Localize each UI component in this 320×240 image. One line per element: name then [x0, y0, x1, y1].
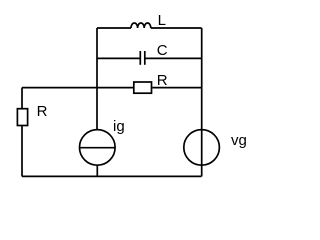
svg-text:L: L	[158, 12, 166, 29]
svg-text:R: R	[157, 72, 168, 89]
svg-text:C: C	[157, 42, 168, 59]
svg-text:vg: vg	[231, 132, 247, 149]
svg-text:R: R	[37, 103, 48, 120]
svg-text:ig: ig	[113, 118, 125, 135]
